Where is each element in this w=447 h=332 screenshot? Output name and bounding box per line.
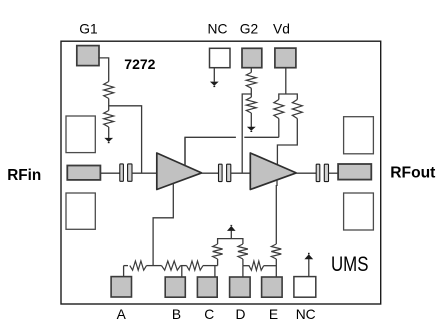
capacitor C3 [316,164,320,181]
pad D [230,277,251,297]
pad A [111,277,131,297]
wire G1 pad to resistor [98,58,108,82]
wire R2 to ground arrow [108,127,110,138]
wire amp1 top to drain line [184,137,186,166]
svg-text:NC: NC [208,22,228,37]
pad NC top (white) [210,48,231,67]
resistor R1 (G1 upper) [104,82,114,99]
white pad top-left [66,116,95,153]
riser to pad C [214,266,216,278]
wire G2 pad to resistor [250,67,252,72]
wire R13 to pad E [275,259,277,277]
pad E [262,277,283,297]
wire R12 to E riser [264,265,277,267]
svg-text:G1: G1 [79,22,97,37]
svg-text:E: E [269,307,278,322]
wire R9 to C node [203,265,218,267]
op-amp U2 (second stage) [250,153,296,190]
wire amp1 bottom to bottom chain [153,184,173,266]
capacitor C1 [120,164,124,181]
riser to pad A [123,266,125,277]
wire amp1 output to C2 [202,172,219,174]
white pad top-right [344,117,374,154]
pad G2 [242,48,262,67]
pad RFin [67,166,100,180]
pad Vd [275,48,296,68]
svg-text:G2: G2 [240,22,258,37]
Vd split bar [279,94,298,100]
wire G1 node to amp1 input [109,106,142,173]
wire R7 to R8 [147,265,162,267]
resistor R11 (above D) [238,244,248,259]
resistor R9 (B-C) [187,261,204,270]
svg-text:UMS: UMS [331,252,369,276]
resistor R6 (Vd right, feeds amp2) [292,100,302,119]
NC open-end arrow [210,82,219,86]
resistor R12 (D-E) [249,261,264,270]
resistor R7 (A-node) [130,261,147,270]
NC bottom open-end arrow [308,259,310,276]
resistor R10 (above C) [213,244,223,259]
wire C1 to amp1 [132,172,157,174]
wire C2 to amp2 [231,172,251,174]
white pad bottom-right [344,193,374,230]
svg-text:RFin: RFin [7,167,41,184]
wire R6 down to amp2 drain [277,119,297,166]
wire C node up to R10 [217,259,219,266]
NC stub wire [213,67,215,82]
wire chain A to R7 [124,265,128,267]
resistor R2 (G1 lower) [104,111,114,128]
up arrow (bias tee) [227,226,236,231]
ground arrow (G2) [247,127,256,131]
pad B [165,277,185,297]
wire Vd pad to split node [285,67,287,94]
wire R4 to ground arrow [250,113,252,127]
svg-text:B: B [172,307,181,322]
svg-text:A: A [117,307,127,322]
white pad bottom-left [66,193,95,229]
svg-text:7272: 7272 [124,56,155,72]
wire C3 to RFout pad [329,172,339,174]
riser to pad D [242,266,244,278]
wire R11 to D node [242,259,244,266]
pad NC bottom (white) [294,277,316,298]
svg-text:RFout: RFout [390,164,435,181]
drain line to amp1 (hops over G2 line) [244,136,278,138]
wire R3 to node [250,88,252,97]
svg-text:NC: NC [296,307,316,322]
wire R5 down to drain line [278,119,280,138]
wire D node to R12 [243,265,250,267]
pad C [197,277,217,297]
wire RFin pad to C1 [100,172,119,174]
wire amp2 bottom down [276,180,278,186]
svg-text:Vd: Vd [273,22,290,37]
op-amp U1 (first stage) [157,153,202,190]
ground arrow (G1) [104,138,113,142]
chip outline [61,41,381,304]
resistor R4 (G2 lower) [246,97,256,113]
wire amp2 output to C3 [296,172,316,174]
wire R1 to node [108,99,110,111]
wire R8 to R9 / riser B [181,265,187,267]
pad RFout [338,164,371,180]
bias tee stem [230,231,232,239]
resistor R5 (Vd left, feeds amp1) [274,100,284,119]
resistor R8 (node-B) [162,261,181,270]
bias tee bar [218,239,243,244]
capacitor C2 [219,164,223,181]
wire G2 node to amp2 input [242,94,251,173]
riser to pad B [181,266,183,278]
resistor R3 (G2 upper) [246,72,256,88]
resistor R13 (above E) [271,244,281,259]
svg-text:C: C [204,307,214,322]
pad G1 [77,46,99,66]
svg-text:D: D [236,307,246,322]
